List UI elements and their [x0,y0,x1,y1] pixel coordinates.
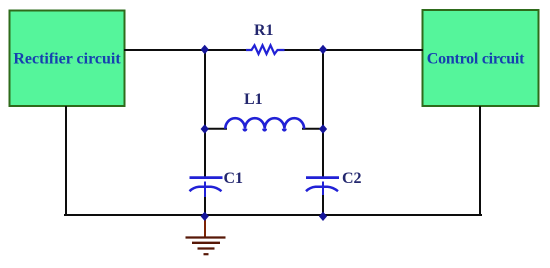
svg-text:Rectifier circuit: Rectifier circuit [13,51,121,68]
svg-text:L1: L1 [244,91,263,108]
svg-text:C2: C2 [342,170,362,187]
svg-text:R1: R1 [254,22,274,39]
svg-text:C1: C1 [224,170,244,187]
svg-text:Control circuit: Control circuit [427,51,525,68]
